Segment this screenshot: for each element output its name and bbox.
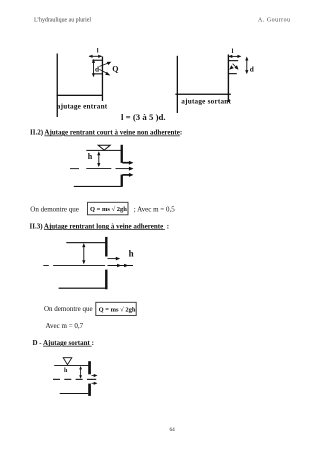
lower jet arrow E xyxy=(92,382,98,385)
jet arrow in tube B xyxy=(233,64,239,70)
svg-text:64: 64 xyxy=(170,427,176,433)
svg-text:Avec m = 0,7: Avec m = 0,7 xyxy=(46,322,84,330)
svg-text:II.2) Ajutage rentrant court à: II.2) Ajutage rentrant court à veine non… xyxy=(30,129,182,137)
dash segment left C xyxy=(70,167,79,170)
upper wall D xyxy=(105,237,107,257)
h measure arrow E xyxy=(79,366,82,379)
upper wall E xyxy=(88,361,91,374)
bottom line C xyxy=(74,186,122,187)
tube bottom line B xyxy=(228,73,237,74)
svg-text:On demontre que: On demontre que xyxy=(44,305,93,313)
svg-text:h: h xyxy=(88,152,93,161)
h measure arrow C xyxy=(97,151,100,167)
svg-text:; Avec m = 0,5: ; Avec m = 0,5 xyxy=(134,205,175,213)
svg-text:D - Ajutage sortant :: D - Ajutage sortant : xyxy=(33,339,94,347)
dashed level line with arrow C xyxy=(86,167,133,171)
bottom line of tank A xyxy=(57,95,103,96)
upper jet arrow E xyxy=(92,374,98,377)
svg-text:Q: Q xyxy=(112,65,118,74)
lower wall E xyxy=(88,384,91,396)
top line D xyxy=(66,242,105,243)
svg-text:d: d xyxy=(250,65,254,74)
svg-text:h: h xyxy=(129,249,134,259)
bottom line D xyxy=(59,288,108,289)
d measure arrow B xyxy=(245,57,248,75)
d measure arrow A xyxy=(92,59,95,77)
lower jet arrow C xyxy=(122,173,133,177)
svg-text:ajutage sortant: ajutage sortant xyxy=(181,97,231,105)
upper jet arrow D xyxy=(108,257,121,261)
dash segment long D xyxy=(53,264,105,267)
dash segment left D xyxy=(43,264,49,267)
jet arrowhead left in tube B xyxy=(229,65,233,69)
svg-text:ajutage entrant: ajutage entrant xyxy=(57,102,108,110)
jet arrow down-right A xyxy=(99,69,110,75)
svg-text:d: d xyxy=(95,65,99,74)
bottom line of tank B xyxy=(175,94,230,95)
upper wall C xyxy=(121,145,123,163)
svg-text:A. Gourrou: A. Gourrou xyxy=(258,18,291,24)
svg-text:h: h xyxy=(64,368,68,374)
wall right of tank A xyxy=(102,57,103,102)
l measure arrow B xyxy=(228,55,241,58)
water surface line C xyxy=(86,150,121,151)
jet line with double arrowheads D xyxy=(108,264,134,268)
dashed level line E xyxy=(53,379,96,380)
jet arrow up-right A xyxy=(99,62,111,67)
svg-text:On demontre que: On demontre que xyxy=(30,205,79,213)
svg-text:l: l xyxy=(232,48,234,55)
svg-text:L’hydraulique au pluriel: L’hydraulique au pluriel xyxy=(34,18,91,24)
svg-text:Q = ms √ 2gh: Q = ms √ 2gh xyxy=(99,305,136,313)
svg-text:Q = ms √ 2gh: Q = ms √ 2gh xyxy=(90,205,127,213)
lower wall D xyxy=(105,270,107,290)
result box II.3 xyxy=(96,302,136,315)
h measure arrow D xyxy=(82,243,85,264)
wall left of tank B xyxy=(177,56,178,113)
svg-text:l: l xyxy=(97,48,99,55)
water surface triangle C xyxy=(98,145,110,150)
water surface line E xyxy=(54,364,88,367)
tube top line A xyxy=(92,60,102,61)
bottom line E xyxy=(60,393,88,394)
water surface triangle E xyxy=(63,358,72,365)
upper jet arrow C xyxy=(122,161,133,165)
lower wall C xyxy=(121,175,123,187)
tube bottom line A xyxy=(95,73,102,74)
wall right of tank B xyxy=(228,55,229,103)
svg-text:II.3) Ajutage rentrant long à: II.3) Ajutage rentrant long à veine adhe… xyxy=(30,222,170,230)
wall left of tank A xyxy=(57,54,58,118)
svg-text:l = (3 à 5 )d.: l = (3 à 5 )d. xyxy=(121,112,166,122)
l measure arrow A xyxy=(89,55,103,58)
tube top line B xyxy=(228,60,238,61)
result box II.2 xyxy=(88,202,129,215)
